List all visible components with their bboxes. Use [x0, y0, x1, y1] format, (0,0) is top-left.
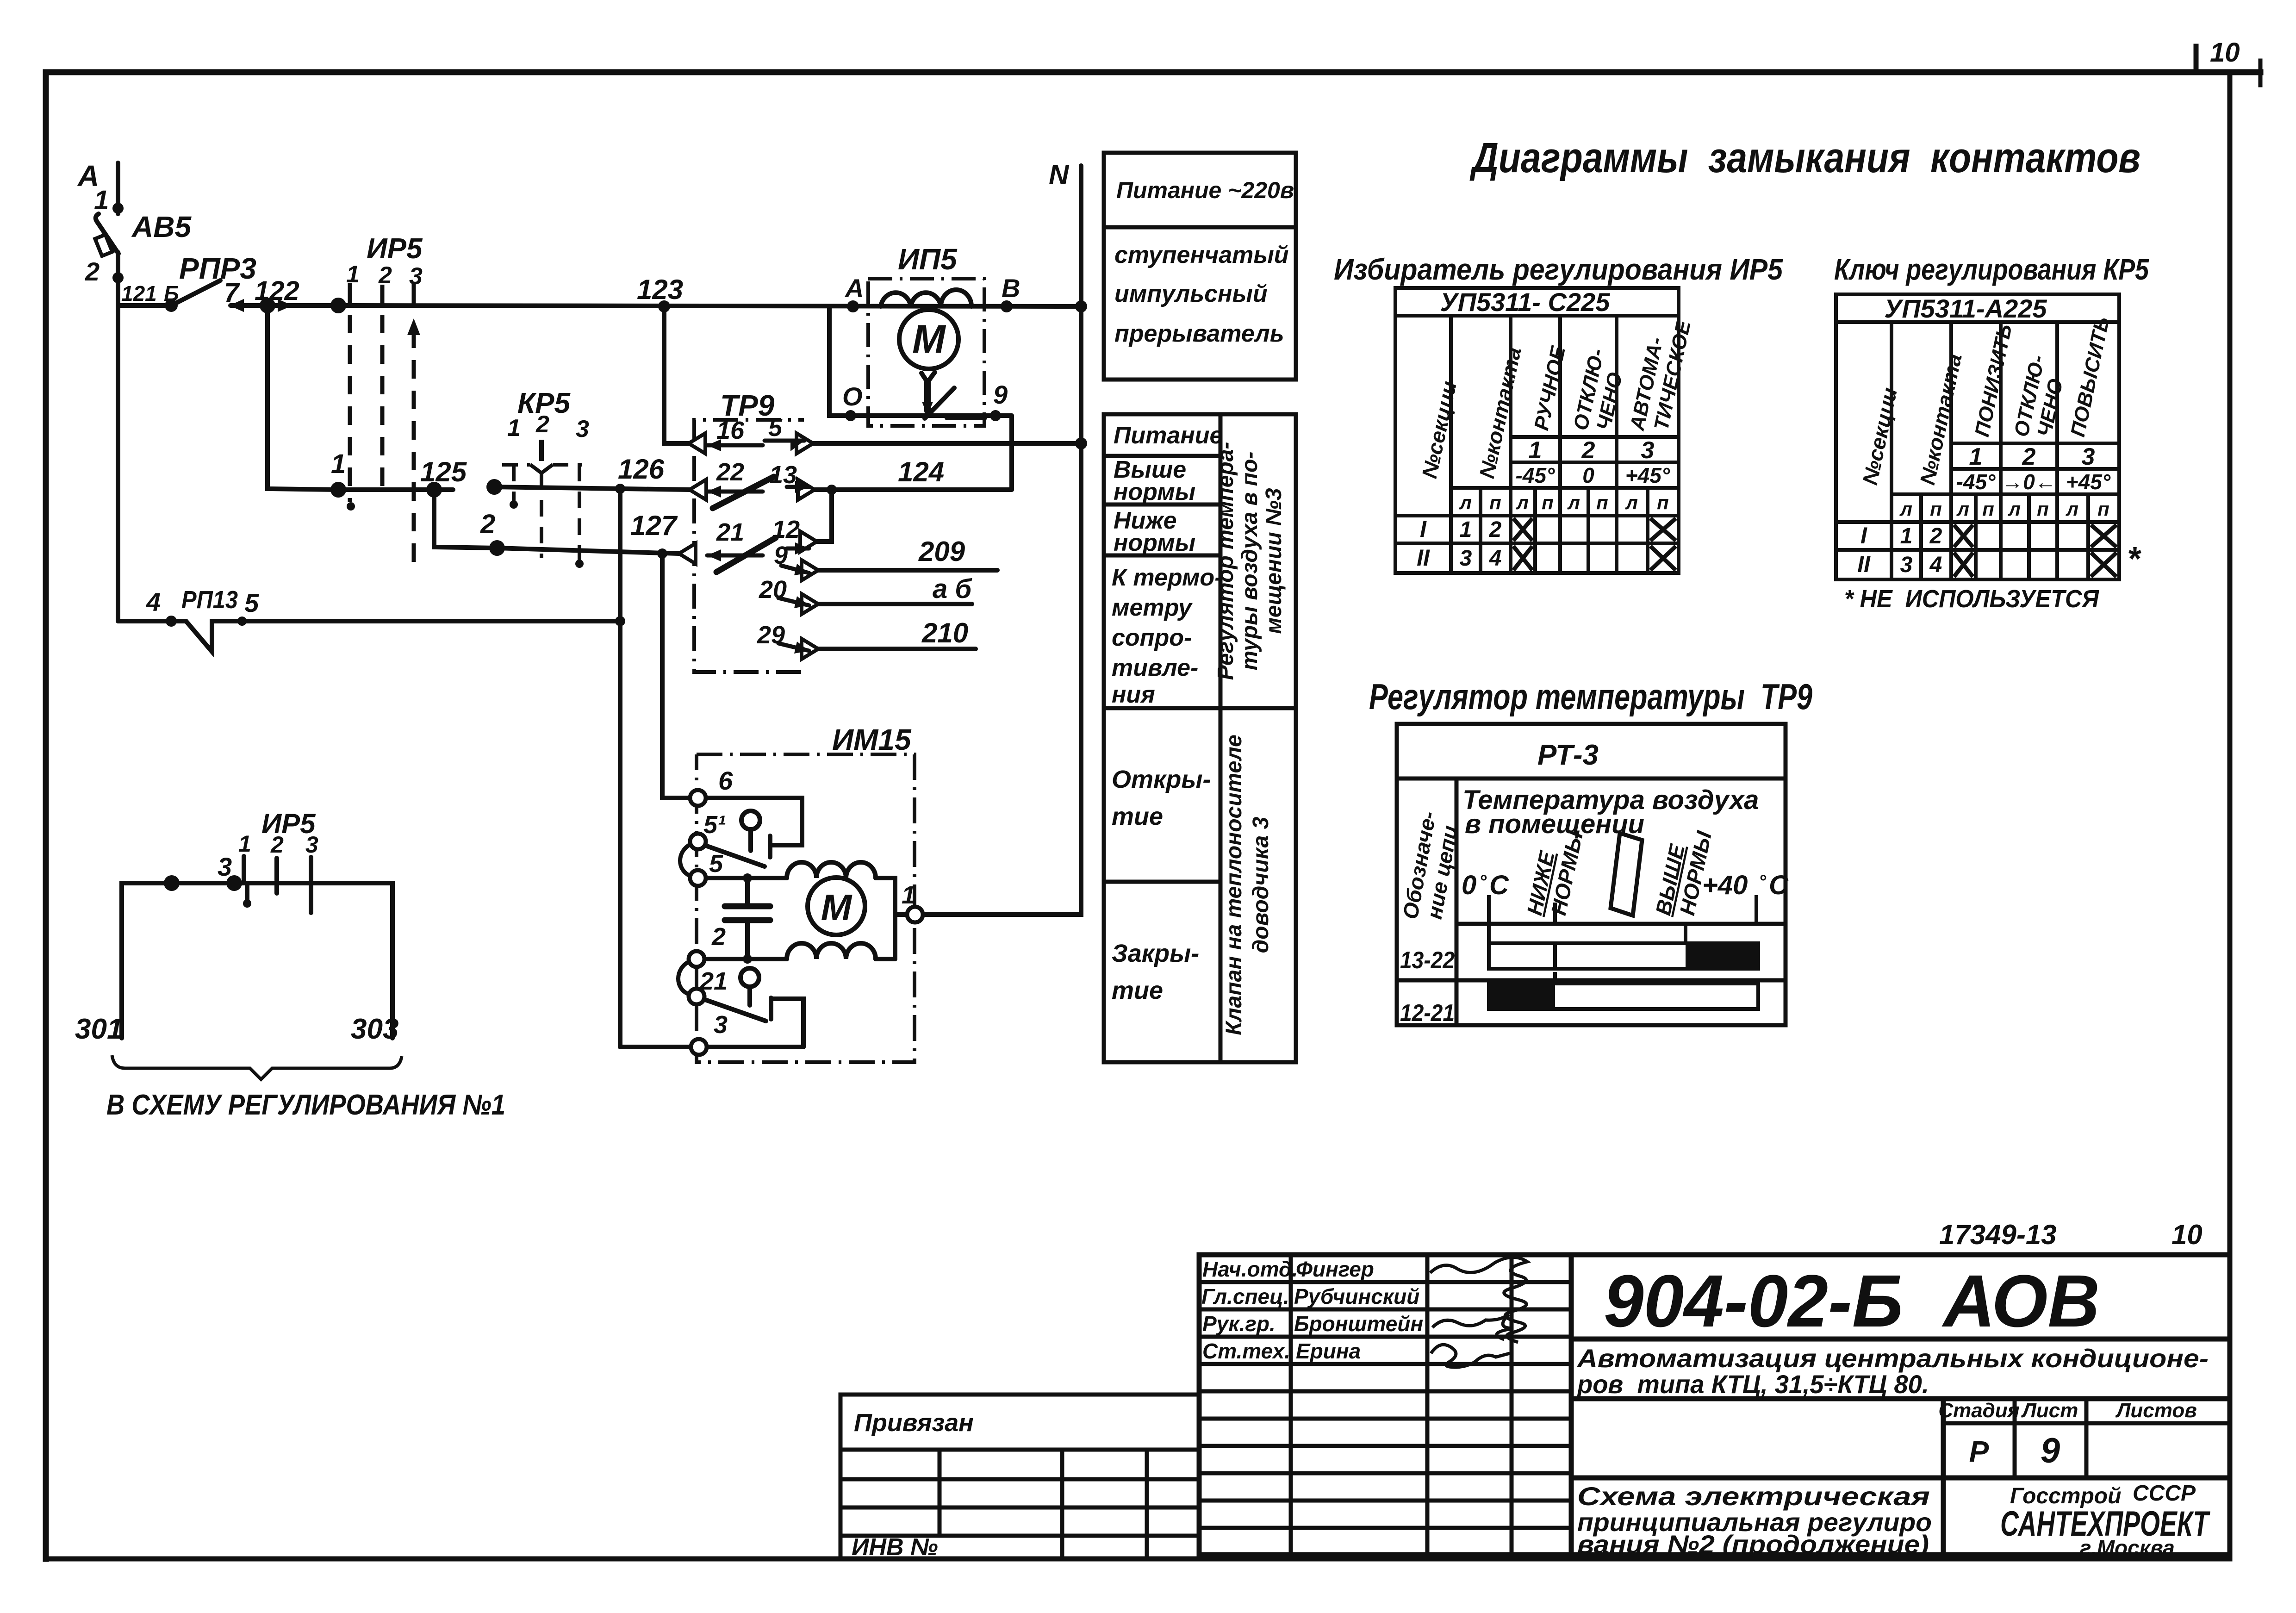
svg-text:1: 1 — [331, 449, 346, 479]
svg-text:122: 122 — [255, 276, 299, 306]
svg-text:+45°: +45° — [1625, 463, 1670, 487]
svg-text:В СХЕМУ РЕГУЛИРОВАНИЯ №1: В СХЕМУ РЕГУЛИРОВАНИЯ №1 — [106, 1089, 505, 1121]
svg-text:3: 3 — [714, 1011, 728, 1039]
svg-text:301: 301 — [75, 1013, 123, 1045]
svg-text:п: п — [1982, 498, 1994, 520]
svg-text:0: 0 — [1582, 463, 1594, 487]
svg-text:Регулятор темпера-: Регулятор темпера- — [1213, 442, 1238, 680]
svg-text:209: 209 — [918, 536, 965, 567]
svg-text:Избиратель регулирования ИР5: Избиратель регулирования ИР5 — [1334, 253, 1783, 286]
svg-text:сопро-: сопро- — [1112, 624, 1192, 651]
svg-text:9: 9 — [993, 380, 1008, 409]
svg-text:Схема электрическая: Схема электрическая — [1577, 1482, 1930, 1511]
svg-text:4: 4 — [146, 587, 161, 617]
svg-text:2: 2 — [711, 923, 726, 951]
svg-text:9: 9 — [774, 542, 788, 569]
svg-text:0: 0 — [1462, 870, 1476, 900]
svg-text:Ст.тех.: Ст.тех. — [1202, 1339, 1290, 1363]
svg-text:л: л — [1459, 492, 1472, 513]
svg-text:Б: Б — [164, 281, 179, 305]
svg-text:Стадия: Стадия — [1938, 1399, 2019, 1422]
svg-text:Нач.отд.: Нач.отд. — [1202, 1257, 1298, 1281]
svg-text:2: 2 — [2022, 443, 2036, 470]
svg-text:г.Москва: г.Москва — [2080, 1536, 2175, 1560]
svg-text:3: 3 — [409, 263, 423, 290]
svg-text:2: 2 — [378, 262, 392, 289]
svg-text:Ключ регулирования КР5: Ключ регулирования КР5 — [1834, 253, 2149, 286]
svg-text:II: II — [1417, 545, 1430, 571]
svg-text:А: А — [844, 274, 864, 303]
svg-text:л: л — [2066, 498, 2078, 520]
svg-text:-45°: -45° — [1516, 463, 1555, 487]
svg-text:5: 5 — [709, 850, 723, 878]
svg-text:16: 16 — [716, 417, 745, 444]
svg-text:нормы: нормы — [1114, 479, 1195, 505]
svg-text:*: * — [2127, 541, 2141, 578]
svg-text:3: 3 — [576, 416, 589, 442]
svg-text:N: N — [1049, 159, 1070, 190]
svg-text:2: 2 — [535, 411, 549, 438]
svg-text:123: 123 — [637, 274, 683, 305]
svg-text:л: л — [1956, 498, 1969, 520]
svg-text:вания №2 (продолжение): вания №2 (продолжение) — [1577, 1530, 1929, 1559]
svg-text:ИР5: ИР5 — [367, 233, 423, 265]
svg-text:туры воздуха в по-: туры воздуха в по- — [1238, 452, 1262, 671]
svg-text:7: 7 — [224, 278, 240, 308]
svg-text:2: 2 — [85, 257, 100, 286]
svg-text:О: О — [842, 382, 863, 411]
svg-text:п: п — [2037, 498, 2049, 520]
svg-text:л: л — [1625, 492, 1638, 513]
svg-text:2: 2 — [1581, 437, 1595, 464]
svg-text:13: 13 — [769, 461, 797, 489]
svg-text:п: п — [1657, 492, 1669, 513]
svg-text:1: 1 — [902, 881, 915, 909]
svg-text:РТ-3: РТ-3 — [1537, 739, 1599, 771]
svg-text:Диаграммы замыкания контакто: Диаграммы замыкания контактов — [1469, 134, 2140, 181]
svg-text:2: 2 — [1489, 517, 1502, 542]
svg-text:п: п — [1489, 492, 1501, 513]
svg-text:прерыватель: прерыватель — [1114, 320, 1284, 347]
svg-text:М: М — [912, 317, 946, 361]
svg-text:29: 29 — [757, 621, 785, 649]
svg-text:904-02-Б АОВ: 904-02-Б АОВ — [1604, 1259, 2100, 1342]
svg-text:12-21: 12-21 — [1400, 1000, 1455, 1027]
svg-text:М: М — [821, 887, 853, 928]
svg-text:→0←: →0← — [2002, 470, 2056, 494]
svg-text:4: 4 — [1489, 546, 1502, 571]
svg-text:л: л — [1567, 492, 1580, 513]
svg-text:л: л — [1516, 492, 1529, 513]
svg-text:12: 12 — [772, 516, 800, 543]
svg-text:126: 126 — [618, 454, 665, 485]
svg-text:1: 1 — [507, 415, 521, 442]
svg-text:2: 2 — [1929, 524, 1942, 548]
svg-text:л: л — [2008, 498, 2021, 520]
svg-text:Клапан на теплоносителе: Клапан на теплоносителе — [1222, 735, 1246, 1035]
svg-text:ния: ния — [1112, 681, 1155, 708]
svg-text:127: 127 — [630, 510, 678, 541]
svg-text:Регулятор температуры ТР9: Регулятор температуры ТР9 — [1369, 676, 1812, 717]
svg-text:9: 9 — [2041, 1431, 2060, 1470]
svg-text:3: 3 — [305, 832, 318, 858]
svg-text:в помещении: в помещении — [1465, 809, 1644, 839]
svg-text:Листов: Листов — [2115, 1399, 2197, 1422]
svg-text:Лист: Лист — [2021, 1399, 2078, 1422]
svg-text:3: 3 — [1900, 553, 1913, 577]
svg-text:21: 21 — [716, 518, 744, 546]
svg-text:л: л — [1899, 498, 1912, 520]
svg-text:303: 303 — [351, 1013, 398, 1045]
svg-text:4: 4 — [1929, 553, 1942, 577]
svg-text:I: I — [1860, 523, 1867, 548]
svg-text:ров типа КТЦ, 31,5÷КТЦ 80.: ров типа КТЦ, 31,5÷КТЦ 80. — [1576, 1370, 1929, 1399]
svg-text:ИМ15: ИМ15 — [832, 723, 912, 756]
svg-text:Гл.спец.: Гл.спец. — [1201, 1284, 1289, 1308]
svg-text:* НЕ ИСПОЛЬЗУЕТСЯ: * НЕ ИСПОЛЬЗУЕТСЯ — [1844, 585, 2100, 613]
svg-text:°: ° — [1479, 872, 1487, 892]
svg-text:1: 1 — [238, 831, 251, 857]
svg-text:1: 1 — [1460, 517, 1472, 542]
svg-text:20: 20 — [759, 576, 787, 604]
svg-text:ИНВ №: ИНВ № — [852, 1534, 938, 1561]
svg-text:6: 6 — [718, 766, 733, 795]
svg-text:нормы: нормы — [1114, 529, 1195, 556]
svg-text:13-22: 13-22 — [1400, 947, 1455, 974]
svg-text:Фингер: Фингер — [1296, 1257, 1374, 1281]
svg-text:п: п — [1596, 492, 1608, 513]
svg-text:°: ° — [1759, 872, 1767, 892]
svg-text:п: п — [2097, 498, 2109, 520]
svg-text:УП5311-А225: УП5311-А225 — [1884, 294, 2047, 323]
svg-text:метру: метру — [1112, 594, 1193, 621]
svg-text:1: 1 — [1529, 437, 1542, 464]
svg-text:1: 1 — [1969, 443, 1983, 470]
svg-text:Автоматизация центральных конд: Автоматизация центральных кондиционе- — [1576, 1344, 2209, 1373]
svg-text:5¹: 5¹ — [703, 811, 726, 839]
svg-text:доводчика 3: доводчика 3 — [1249, 816, 1273, 953]
svg-text:21: 21 — [699, 967, 728, 995]
svg-text:10: 10 — [2210, 37, 2240, 68]
svg-text:импульсный: импульсный — [1114, 280, 1268, 307]
svg-text:РП13: РП13 — [181, 586, 238, 614]
svg-text:5: 5 — [244, 588, 259, 617]
svg-text:тие: тие — [1112, 803, 1163, 830]
svg-text:121: 121 — [121, 281, 157, 305]
svg-text:п: п — [1542, 492, 1554, 513]
svg-text:2: 2 — [480, 509, 495, 539]
svg-text:22: 22 — [716, 458, 744, 486]
svg-text:Рубчинский: Рубчинский — [1294, 1284, 1419, 1308]
svg-text:-45°: -45° — [1956, 470, 1996, 494]
svg-text:1: 1 — [346, 261, 360, 288]
svg-text:ИП5: ИП5 — [898, 243, 958, 276]
svg-text:2: 2 — [270, 832, 284, 858]
svg-text:5: 5 — [768, 414, 783, 442]
svg-text:п: п — [1930, 498, 1942, 520]
svg-text:3: 3 — [218, 852, 232, 881]
svg-text:Закры-: Закры- — [1112, 940, 1199, 967]
svg-text:Р: Р — [1969, 1435, 1989, 1468]
svg-text:Рук.гр.: Рук.гр. — [1202, 1312, 1276, 1336]
svg-text:СССР: СССР — [2133, 1481, 2196, 1506]
svg-text:I: I — [1420, 516, 1427, 542]
svg-text:С: С — [1769, 870, 1789, 900]
svg-text:РПР3: РПР3 — [179, 252, 256, 285]
svg-text:К термо-: К термо- — [1112, 564, 1223, 591]
svg-text:УП5311- С225: УП5311- С225 — [1440, 287, 1611, 317]
svg-text:3: 3 — [1641, 437, 1655, 464]
svg-text:ступенчатый: ступенчатый — [1114, 242, 1289, 268]
svg-text:а б: а б — [933, 574, 972, 604]
svg-text:10: 10 — [2172, 1219, 2203, 1250]
svg-text:Откры-: Откры- — [1112, 766, 1211, 793]
svg-text:Привязан: Привязан — [854, 1409, 974, 1437]
svg-text:3: 3 — [1460, 546, 1472, 571]
svg-text:17349-13: 17349-13 — [1939, 1219, 2057, 1250]
svg-text:Питание: Питание — [1114, 422, 1223, 449]
svg-text:С: С — [1489, 870, 1509, 900]
svg-text:тие: тие — [1112, 977, 1163, 1004]
svg-text:Бронштейн: Бронштейн — [1294, 1312, 1423, 1336]
svg-text:3: 3 — [2082, 443, 2095, 470]
svg-text:124: 124 — [898, 456, 944, 487]
svg-text:мещении №3: мещении №3 — [1262, 488, 1286, 634]
svg-text:II: II — [1857, 551, 1871, 577]
svg-text:1: 1 — [94, 185, 109, 215]
svg-text:Ерина: Ерина — [1296, 1339, 1361, 1363]
svg-text:+45°: +45° — [2066, 470, 2111, 494]
svg-text:+40: +40 — [1702, 870, 1748, 900]
svg-text:Питание ~220в: Питание ~220в — [1116, 177, 1294, 203]
svg-text:тивле-: тивле- — [1112, 654, 1198, 681]
svg-text:1: 1 — [1900, 524, 1913, 548]
svg-text:125: 125 — [420, 456, 467, 487]
svg-text:АВ5: АВ5 — [131, 210, 192, 243]
svg-text:210: 210 — [921, 617, 968, 648]
svg-text:В: В — [1002, 274, 1020, 303]
